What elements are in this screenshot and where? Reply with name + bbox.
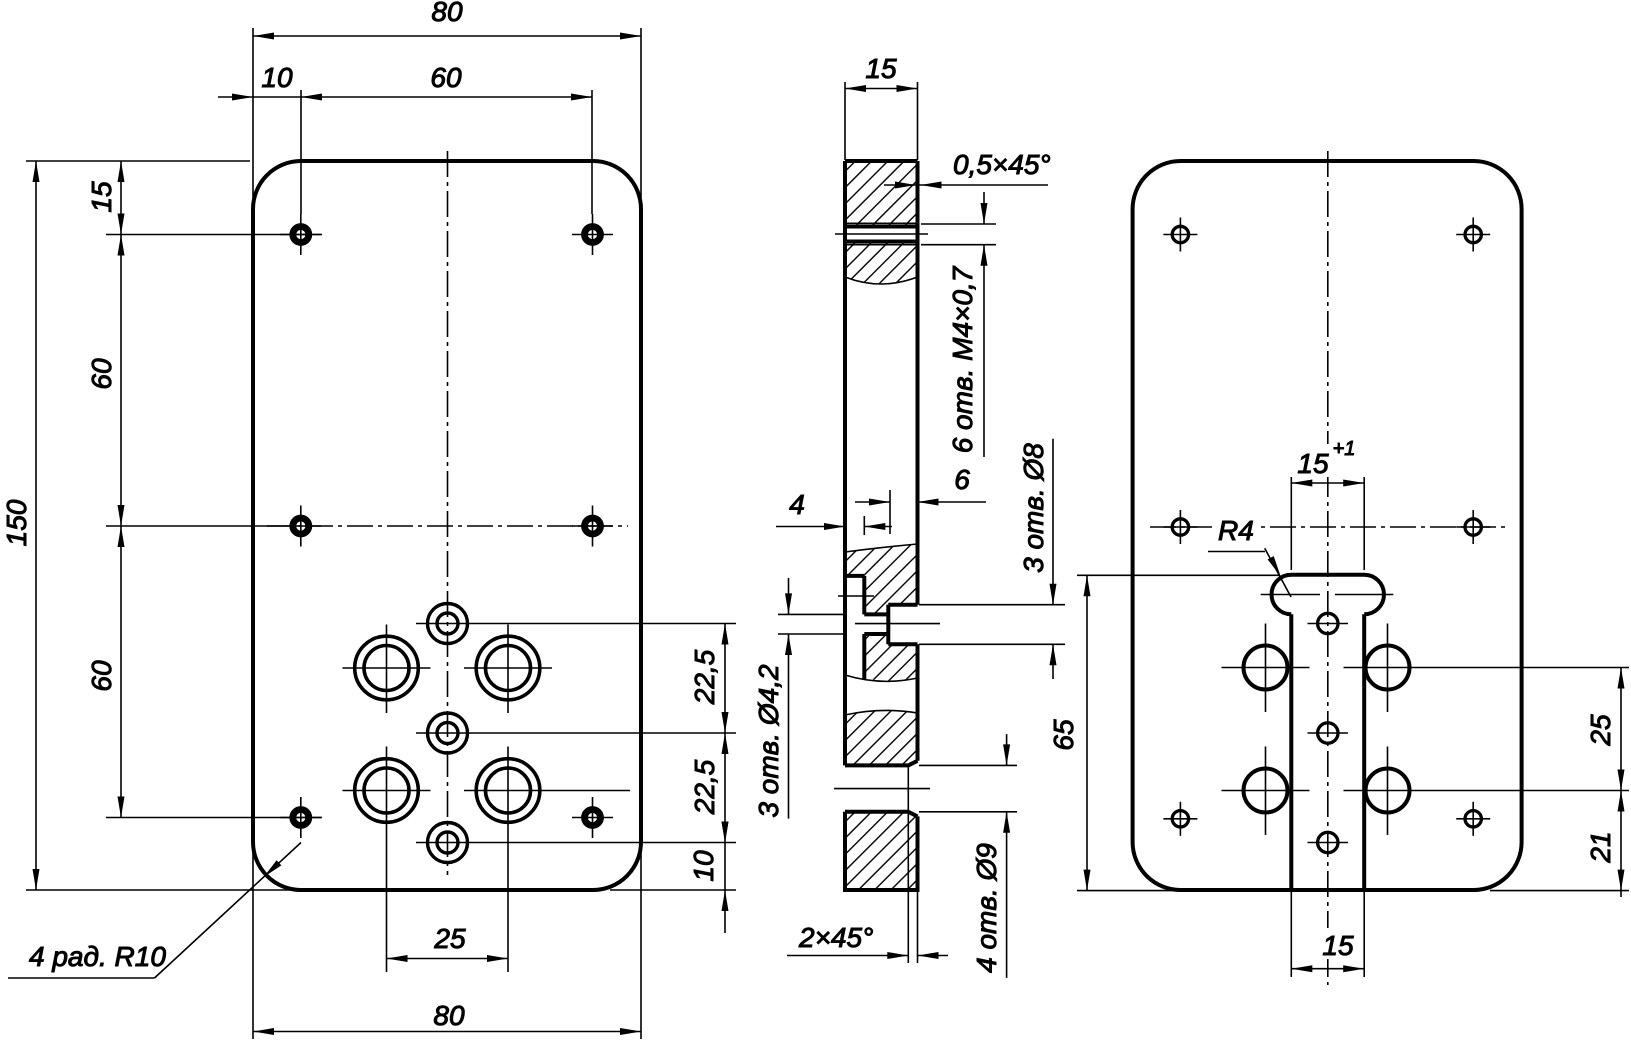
svg-text:15: 15: [865, 53, 897, 84]
slot outline (15 wide, R4 ends): [1272, 575, 1384, 890]
section hatch (middle lower part): [864, 634, 917, 682]
hole O4.2/O8 counterbore bottom (left view): [416, 823, 736, 863]
side view left edge: [843, 161, 847, 890]
dimension 3 otv. O8 (counterbore): [919, 439, 1065, 679]
hole O9 top-left (right view): [1222, 624, 1310, 713]
middle section break line (top): [845, 544, 918, 552]
left view plate outline (80x150, R10 corners): [253, 161, 641, 890]
dimension 10 (top): [218, 62, 301, 214]
svg-text:10: 10: [688, 850, 719, 882]
svg-text:15: 15: [1297, 448, 1329, 479]
dimension 15+1 (slot width, top): [1291, 438, 1364, 570]
hole O9 top-left (left view): [343, 625, 431, 714]
top section break line (wavy boundary): [845, 277, 918, 284]
svg-text:6 отв. М4×0,7: 6 отв. М4×0,7: [947, 265, 978, 453]
hole M4 mid-left (left view): [280, 506, 321, 547]
dimension 60 (left chain lower): [86, 526, 322, 818]
dimension 80 (bottom): [253, 843, 641, 1039]
O8 counterbore walls (section): [888, 605, 917, 645]
slot bottom face line (section): [862, 576, 866, 679]
dimension 25 (right): [1585, 668, 1625, 791]
hole O4.2/O8 counterbore middle (left view): [416, 713, 736, 753]
leader 4 rad. R10 (corner radius note): [8, 843, 301, 979]
M4 threaded hole section lines (row 1): [835, 223, 928, 244]
hole M4 bot-right (right view): [1456, 802, 1490, 836]
right view horizontal centerline (middle hole row): [1150, 526, 1505, 528]
section hatch (bottom, above O9 hole): [845, 710, 918, 765]
hole O9 bottom-left (left view): [343, 747, 431, 973]
svg-text:150: 150: [1, 499, 32, 546]
dimension 22,5 (right chain upper): [689, 624, 729, 734]
section hatch (top, above M4 hole): [845, 161, 918, 227]
bottom section break line (top): [845, 710, 918, 715]
2x45 chamfer lines (section): [908, 761, 917, 817]
svg-text:15: 15: [86, 181, 117, 213]
dimension 60 (top): [301, 62, 592, 214]
hole M4 top-left (left view): [280, 214, 321, 255]
hole M4 top-left (right view): [1163, 218, 1197, 252]
svg-text:4 отв. Ø9: 4 отв. Ø9: [971, 843, 1002, 973]
dimension 22,5 (right chain lower): [689, 733, 729, 843]
hole M4 bot-left (left view): [280, 797, 321, 838]
hole O9 bottom-left (right view): [1222, 747, 1310, 836]
hole centerline (bottom section): [834, 788, 930, 790]
chamfer note 2x45deg: [787, 812, 948, 963]
dimension 65: [1048, 575, 1279, 890]
hole M4 bot-left (right view): [1163, 802, 1197, 836]
slot top end face (section): [845, 574, 864, 578]
dimension 3 otv. O4,2: [753, 578, 845, 819]
hole M4 mid-right (left view): [572, 506, 613, 547]
hole M4 top-right (left view): [572, 214, 613, 255]
dimension 25 (bottom): [387, 923, 509, 962]
right view plate outline (80x150, R10 corners): [1133, 161, 1522, 890]
left view vertical centerline: [447, 151, 449, 875]
svg-text:60: 60: [430, 62, 462, 93]
dimension 150 (left): [1, 161, 300, 890]
dimension 15 (slot width, bottom): [1291, 892, 1364, 977]
dimension 6 otv. M4x0,7 (thread note): [921, 192, 996, 457]
svg-text:0,5×45°: 0,5×45°: [953, 149, 1051, 180]
svg-text:4 рад. R10: 4 рад. R10: [29, 941, 166, 972]
svg-text:65: 65: [1048, 719, 1079, 751]
hole O9 top-right (right view): [1344, 624, 1630, 713]
svg-text:25: 25: [433, 923, 466, 954]
svg-text:21: 21: [1585, 831, 1616, 863]
hole O4.2/O8 counterbore top (left view): [416, 604, 736, 644]
side view right edge: [916, 161, 920, 890]
dimension 6 (counterbore depth): [855, 464, 986, 534]
dimension 10 (right chain bottom): [610, 822, 736, 934]
hole M4 top-right (right view): [1456, 218, 1490, 252]
svg-text:+1: +1: [1333, 438, 1356, 460]
left view horizontal centerline (middle hole row): [267, 525, 628, 527]
dimension 15 (left chain): [86, 161, 322, 235]
dimension 4 otv. O9: [919, 734, 1017, 978]
svg-text:80: 80: [433, 1000, 465, 1031]
O4.2 hole walls (section): [864, 614, 888, 634]
svg-text:2×45°: 2×45°: [798, 922, 873, 953]
svg-text:60: 60: [86, 358, 117, 390]
svg-text:R4: R4: [1218, 515, 1254, 546]
svg-text:22,5: 22,5: [689, 649, 720, 705]
section hatch (bottom, below O9 hole): [845, 812, 918, 890]
middle section break line (bottom): [845, 675, 918, 681]
chamfer note 0,5x45deg: [884, 149, 1051, 189]
O9 hole walls (section): [845, 765, 908, 811]
slot end centerline: [1261, 594, 1394, 596]
leader R4 (slot end radius): [1208, 512, 1291, 597]
section hatch (middle upper part): [845, 544, 918, 614]
side view top edge: [845, 159, 918, 163]
svg-text:22,5: 22,5: [689, 759, 720, 815]
svg-text:15: 15: [1322, 930, 1354, 961]
section hatch (top, below M4 hole): [845, 242, 918, 285]
hole O4.2 bottom (right view): [1308, 832, 1349, 852]
dimension 15 (side view thickness): [845, 53, 918, 160]
hole M4 mid-right (right view): [1456, 510, 1490, 544]
hole O9 top-right (left view): [464, 625, 552, 714]
hole O9 bottom-right (right view): [1344, 747, 1630, 836]
hole O9 bottom-right (left view): [464, 747, 630, 973]
svg-text:25: 25: [1585, 714, 1616, 747]
dimension 21 (right): [1490, 791, 1629, 898]
hole centerline (middle section): [838, 596, 940, 624]
hole O4.2 middle (right view): [1308, 723, 1349, 743]
svg-text:4: 4: [789, 489, 805, 520]
side view bottom edge: [843, 888, 920, 892]
hole O4.2 top (right view): [1308, 613, 1349, 633]
svg-text:10: 10: [261, 62, 293, 93]
right view vertical centerline: [1327, 151, 1329, 985]
dimension 60 (left chain upper): [86, 235, 280, 527]
hole M4 mid-left (right view): [1163, 510, 1197, 544]
svg-text:80: 80: [431, 0, 463, 27]
dimension 80 (top): [253, 0, 641, 198]
dimension 4 (slot depth): [776, 489, 892, 535]
hole M4 bot-right (left view): [572, 797, 613, 838]
svg-text:3 отв. Ø4,2: 3 отв. Ø4,2: [753, 664, 784, 818]
svg-text:60: 60: [86, 660, 117, 692]
svg-text:3 отв. Ø8: 3 отв. Ø8: [1018, 443, 1049, 573]
svg-text:6: 6: [954, 464, 970, 495]
